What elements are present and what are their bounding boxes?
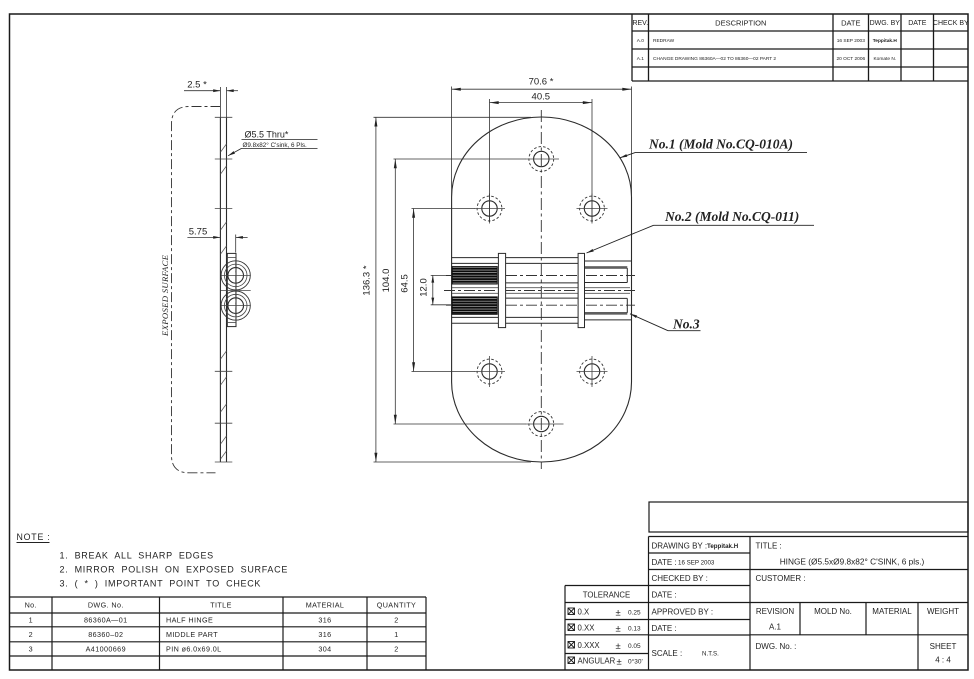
dimension 64.5 <box>412 209 475 372</box>
svg-text:PIN ø6.0x69.0L: PIN ø6.0x69.0L <box>166 645 222 654</box>
svg-text:Ø5.5 Thru*: Ø5.5 Thru* <box>245 130 289 140</box>
svg-text:A.0: A.0 <box>637 38 645 44</box>
svg-text:20 OCT 2006: 20 OCT 2006 <box>836 56 865 62</box>
SECTION: title block <box>649 502 969 670</box>
svg-text:WEIGHT: WEIGHT <box>927 607 959 616</box>
exposed surface boundary dash-dot <box>172 107 221 473</box>
svg-text:No.1 (Mold No.CQ-010A): No.1 (Mold No.CQ-010A) <box>648 137 793 152</box>
svg-text:±: ± <box>616 624 621 635</box>
svg-text:MATERIAL: MATERIAL <box>306 601 345 610</box>
svg-text:1: 1 <box>394 630 398 639</box>
svg-text:2. MIRROR POLISH ON EXPOSED SU: 2. MIRROR POLISH ON EXPOSED SURFACE <box>60 565 289 575</box>
dimension 12.0 <box>431 275 452 304</box>
svg-text:316: 316 <box>318 616 331 625</box>
hole upper left <box>474 194 505 224</box>
svg-text:TOLERANCE: TOLERANCE <box>583 591 631 600</box>
svg-text:12.0: 12.0 <box>419 278 430 297</box>
revision/mold/material/weight dividers <box>799 603 801 635</box>
knuckle outer circle lower <box>221 291 250 320</box>
knurled pin upper left <box>452 267 497 284</box>
svg-text:CHECKED BY :: CHECKED BY : <box>652 574 708 583</box>
svg-text:0.X: 0.X <box>578 608 591 617</box>
svg-text:SHEET: SHEET <box>930 642 957 651</box>
svg-text:0.25: 0.25 <box>628 610 641 617</box>
svg-text:No.3: No.3 <box>672 317 700 332</box>
svg-text:HINGE (Ø5.5xØ9.8x82° C'SINK, 6: HINGE (Ø5.5xØ9.8x82° C'SINK, 6 pls.) <box>780 557 925 567</box>
plate right face <box>226 117 228 462</box>
parts table grid <box>10 596 427 598</box>
svg-text:A41000669: A41000669 <box>86 645 126 654</box>
left column row lines <box>649 552 751 554</box>
svg-text:70.6 *: 70.6 * <box>529 77 554 88</box>
svg-text:304: 304 <box>318 645 331 654</box>
svg-text:HALF HINGE: HALF HINGE <box>166 616 213 625</box>
svg-text:Teppitak.H: Teppitak.H <box>707 543 739 550</box>
svg-text:APPROVED BY :: APPROVED BY : <box>652 608 714 617</box>
hole top center <box>526 147 559 172</box>
hole tick y159 <box>215 158 233 160</box>
svg-text:ANGULAR: ANGULAR <box>578 657 616 666</box>
checkbox symbols <box>568 608 575 615</box>
svg-text:TITLE :: TITLE : <box>756 542 782 551</box>
svg-text:DATE: DATE <box>908 20 926 27</box>
svg-text:No.2 (Mold No.CQ-011): No.2 (Mold No.CQ-011) <box>664 209 799 224</box>
svg-text:TITLE: TITLE <box>210 601 232 610</box>
svg-text:REDRAW: REDRAW <box>653 38 675 44</box>
middle part slot lines <box>452 288 630 294</box>
svg-text:1: 1 <box>29 616 33 625</box>
svg-text:±: ± <box>616 608 621 619</box>
knuckle fillet lines <box>227 257 237 259</box>
svg-text:3: 3 <box>29 645 33 654</box>
svg-text:QUANTITY: QUANTITY <box>377 601 417 610</box>
empty band box above title block <box>649 502 968 532</box>
right column row lines <box>750 569 968 571</box>
svg-text:DESCRIPTION: DESCRIPTION <box>715 19 766 28</box>
hole tick y371.3 <box>215 370 233 372</box>
svg-text:0.13: 0.13 <box>628 626 641 633</box>
SECTION: revision table <box>632 14 968 81</box>
hole lower left <box>474 356 505 387</box>
plate left face <box>219 117 221 462</box>
SECTION: parts table <box>10 597 427 670</box>
pin centerline lower <box>446 304 635 306</box>
svg-text:N.T.S.: N.T.S. <box>702 651 719 658</box>
plate bottom edge <box>215 461 233 463</box>
svg-text:0.05: 0.05 <box>628 643 641 650</box>
svg-text:MIDDLE PART: MIDDLE PART <box>166 630 218 639</box>
svg-text:316: 316 <box>318 630 331 639</box>
knuckle center cross lines <box>221 260 251 322</box>
svg-text:DWG. BY: DWG. BY <box>870 20 901 27</box>
hole tick y208.6 <box>215 208 233 210</box>
hole callout leader <box>228 148 242 155</box>
sheet box divider <box>917 635 919 670</box>
svg-text:DATE :: DATE : <box>652 558 677 567</box>
svg-text:A.1: A.1 <box>769 623 782 632</box>
title block outline <box>649 536 969 538</box>
SECTION: side view <box>160 80 318 473</box>
knuckle curl inner arc upper <box>224 264 247 287</box>
svg-text:DWG. No.: DWG. No. <box>88 601 124 610</box>
svg-text:2: 2 <box>394 616 398 625</box>
hole upper right <box>577 194 608 224</box>
barrel right flange <box>578 253 584 327</box>
svg-text:REVISION: REVISION <box>756 607 794 616</box>
knuckle body <box>227 253 236 326</box>
svg-text:136.3 *: 136.3 * <box>362 265 373 295</box>
svg-text:1. BREAK ALL SHARP EDGES: 1. BREAK ALL SHARP EDGES <box>60 551 214 561</box>
knurled pin lower left <box>452 297 497 314</box>
hole bottom center <box>526 412 564 437</box>
svg-text:2: 2 <box>29 630 33 639</box>
svg-text:EXPOSED SURFACE: EXPOSED SURFACE <box>160 254 170 337</box>
pin hole circle lower <box>228 298 244 314</box>
revision table grid <box>631 14 633 81</box>
svg-text:No.: No. <box>25 601 37 610</box>
svg-text:±: ± <box>617 657 622 668</box>
svg-text:MOLD No.: MOLD No. <box>814 607 852 616</box>
svg-text:40.5: 40.5 <box>532 92 551 103</box>
svg-text:±: ± <box>616 641 621 652</box>
barrel left flange <box>498 253 505 327</box>
knuckle curl inner arc lower <box>224 294 247 317</box>
svg-text:CHECK BY: CHECK BY <box>933 20 969 27</box>
pin hole circle upper <box>228 268 244 284</box>
svg-text:0.XXX: 0.XXX <box>578 641 601 650</box>
svg-text:NOTE :: NOTE : <box>17 532 51 542</box>
svg-text:16 SEP 2003: 16 SEP 2003 <box>837 38 866 44</box>
knuckle outer circle upper <box>221 261 250 290</box>
svg-text:Komate N.: Komate N. <box>873 56 896 62</box>
svg-text:DATE :: DATE : <box>652 624 677 633</box>
svg-text:REV.: REV. <box>632 20 648 27</box>
SECTION: notes <box>17 532 289 589</box>
pin right upper <box>585 268 628 282</box>
svg-text:64.5: 64.5 <box>399 274 410 293</box>
svg-text:DWG. No. :: DWG. No. : <box>756 642 797 651</box>
horizontal centerline <box>444 290 638 292</box>
plate extension lines for 2.5 <box>219 87 221 117</box>
svg-text:Teppitak.H: Teppitak.H <box>873 38 898 44</box>
svg-text:86360–02: 86360–02 <box>88 630 123 639</box>
plate top edge <box>215 116 233 118</box>
vertical centerline <box>540 110 542 469</box>
svg-text:MATERIAL: MATERIAL <box>872 607 912 616</box>
svg-text:16 SEP 2003: 16 SEP 2003 <box>678 560 715 567</box>
svg-text:3. ( * ) IMPORTANT POINT TO CH: 3. ( * ) IMPORTANT POINT TO CHECK <box>60 579 262 589</box>
svg-text:86360A—01: 86360A—01 <box>84 616 128 625</box>
SECTION: front view <box>362 77 815 470</box>
svg-text:A.1: A.1 <box>637 56 645 62</box>
barrel internal lines <box>506 283 578 298</box>
knuckle leaf edge lines <box>452 258 585 324</box>
dimension 40.5 <box>490 99 593 222</box>
svg-text:2.5 *: 2.5 * <box>187 80 207 91</box>
dimension 104.0 <box>394 159 527 424</box>
section hatch marks <box>221 144 227 459</box>
SECTION: tolerance table <box>565 586 649 671</box>
svg-text:104.0: 104.0 <box>381 269 392 293</box>
svg-text:0.XX: 0.XX <box>578 624 596 633</box>
revision row A.1 <box>637 56 896 62</box>
dimension 136.3 <box>374 117 532 462</box>
svg-text:5.75: 5.75 <box>189 227 208 238</box>
svg-text:CHANGE DRAWING 86360A—02 TO 86: CHANGE DRAWING 86360A—02 TO 86360—02 PAR… <box>653 56 776 62</box>
revision row A.0 <box>637 38 898 44</box>
svg-text:SCALE :: SCALE : <box>652 649 683 658</box>
pin right lower <box>585 298 628 312</box>
svg-text:DATE: DATE <box>841 19 860 28</box>
pin centerline upper <box>446 275 635 277</box>
right leaf slot edges <box>585 261 632 320</box>
tolerance table grid <box>565 585 649 587</box>
svg-text:DRAWING BY :: DRAWING BY : <box>652 542 708 551</box>
hole tick y423.2 <box>215 422 233 424</box>
svg-text:DATE :: DATE : <box>652 591 677 600</box>
svg-text:0°30': 0°30' <box>628 658 643 666</box>
svg-text:2: 2 <box>394 645 398 654</box>
svg-text:CUSTOMER :: CUSTOMER : <box>756 574 806 583</box>
svg-text:4 : 4: 4 : 4 <box>935 656 951 665</box>
dimension 70.6 <box>452 87 632 198</box>
hinge plate outline (obround) <box>452 117 632 462</box>
hole lower right <box>577 356 608 387</box>
